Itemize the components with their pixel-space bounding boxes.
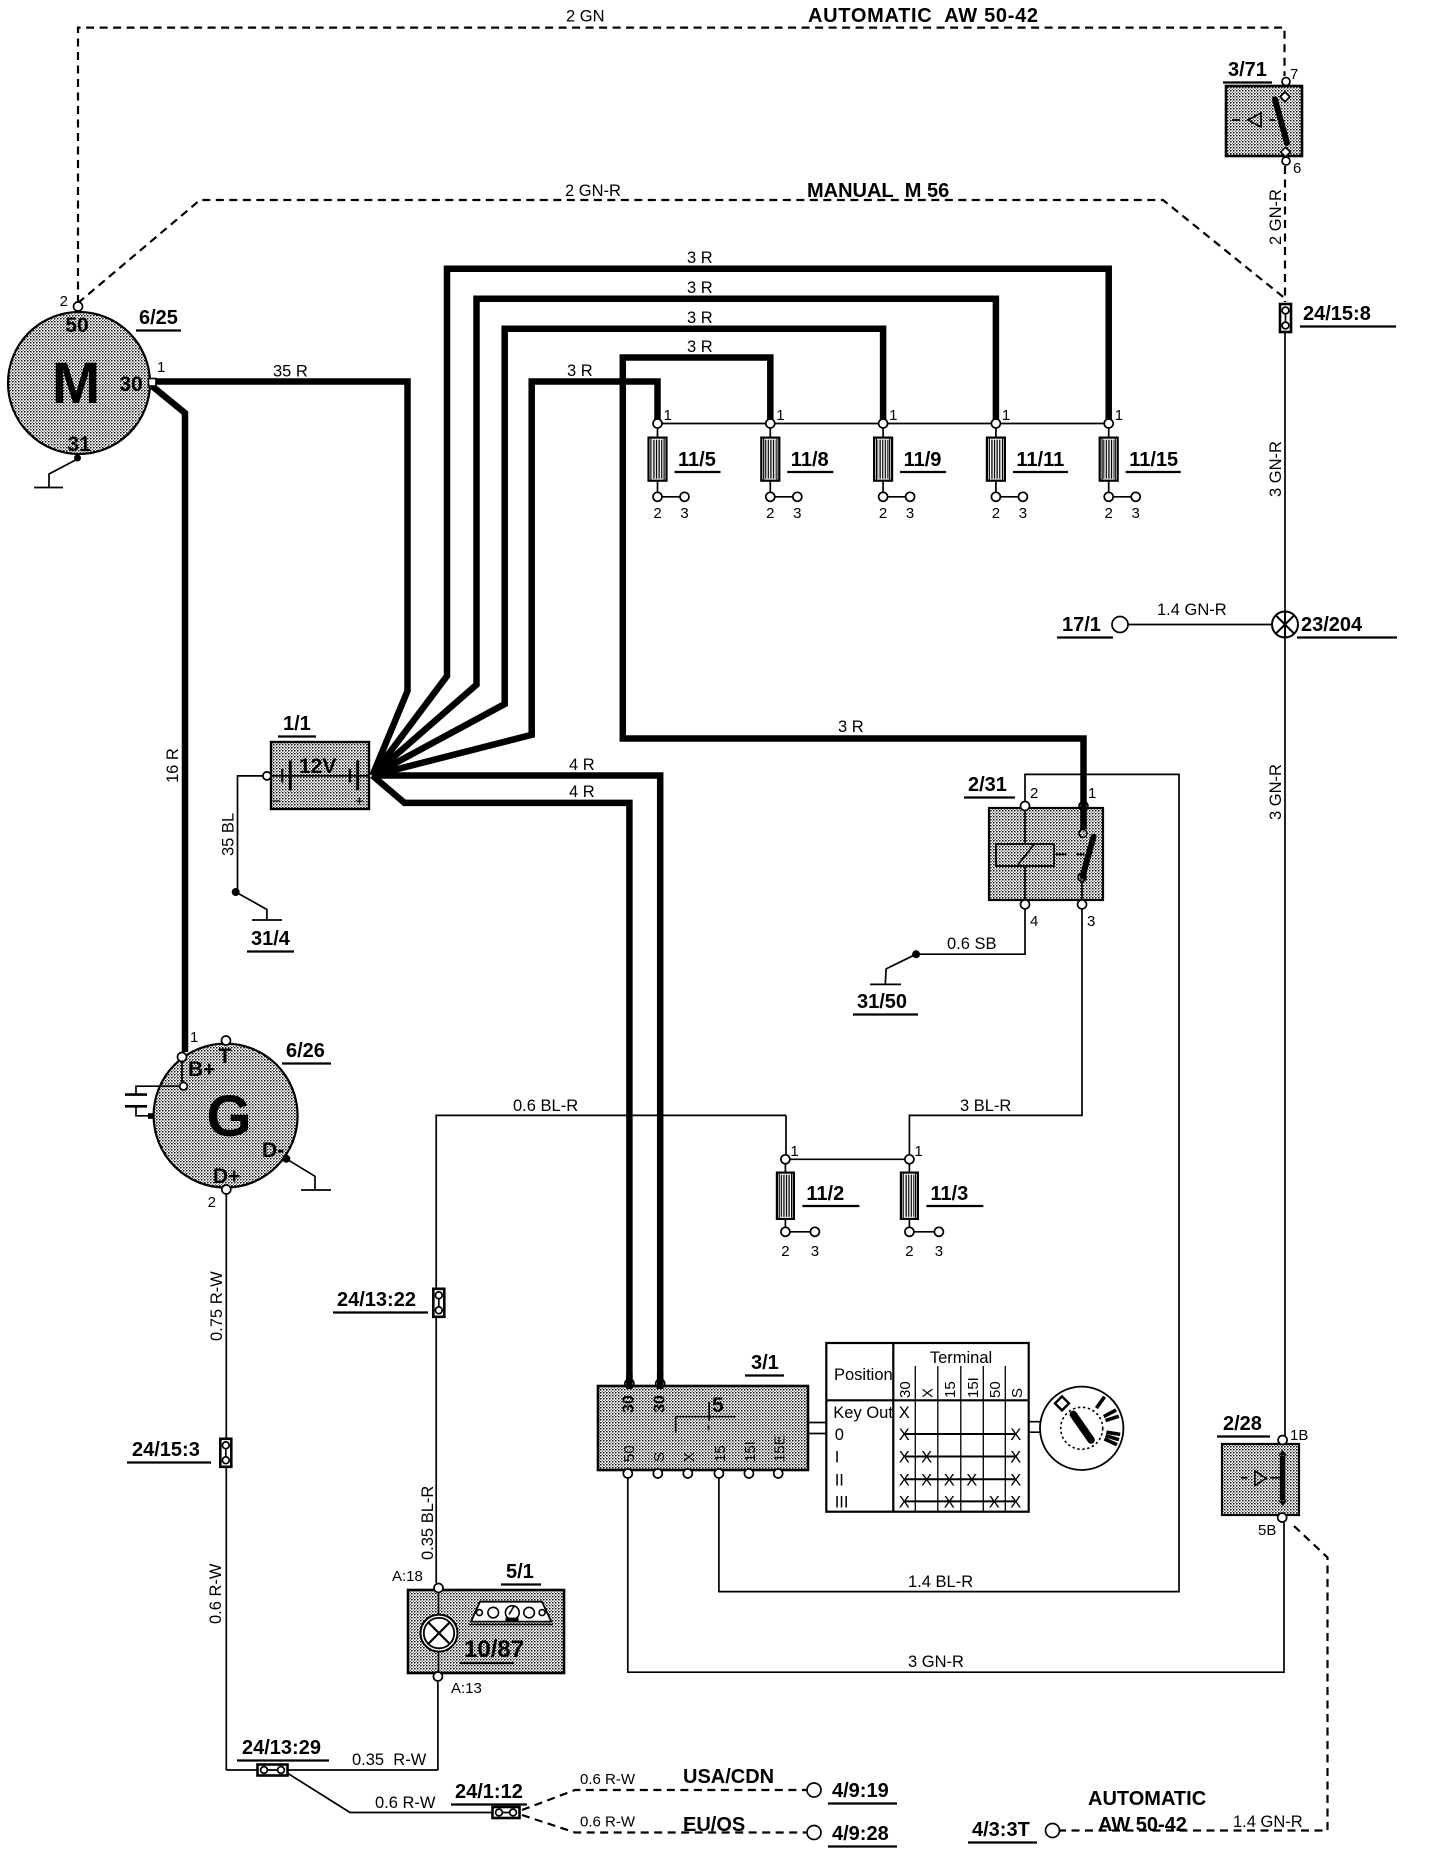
svg-text:15E: 15E xyxy=(772,1435,789,1462)
svg-text:3: 3 xyxy=(811,1243,819,1260)
svg-text:1B: 1B xyxy=(1290,1427,1308,1444)
svg-text:3/1: 3/1 xyxy=(751,1352,779,1374)
svg-text:X: X xyxy=(1010,1449,1021,1467)
svg-text:0.6 R-W: 0.6 R-W xyxy=(375,1794,436,1812)
svg-text:1: 1 xyxy=(157,359,165,376)
svg-text:1: 1 xyxy=(889,407,897,424)
svg-text:11/2: 11/2 xyxy=(806,1183,844,1205)
svg-text:III: III xyxy=(835,1494,849,1512)
svg-text:S: S xyxy=(1009,1388,1026,1398)
svg-text:50: 50 xyxy=(65,314,88,337)
svg-text:2: 2 xyxy=(992,505,1000,522)
svg-text:A:13: A:13 xyxy=(451,1680,482,1697)
svg-text:2 GN-R: 2 GN-R xyxy=(1267,189,1285,245)
svg-text:X: X xyxy=(899,1471,910,1489)
svg-text:12V: 12V xyxy=(299,755,336,778)
svg-text:2/31: 2/31 xyxy=(968,774,1007,796)
svg-text:X: X xyxy=(966,1471,977,1489)
svg-text:X: X xyxy=(920,1388,937,1398)
svg-text:Terminal: Terminal xyxy=(930,1349,992,1367)
svg-text:X: X xyxy=(899,1404,910,1422)
svg-text:X: X xyxy=(1010,1471,1021,1489)
svg-text:X: X xyxy=(899,1449,910,1467)
svg-text:X: X xyxy=(899,1493,910,1511)
svg-text:6/26: 6/26 xyxy=(286,1040,325,1062)
svg-text:0.6 R-W: 0.6 R-W xyxy=(580,1814,636,1831)
svg-text:1: 1 xyxy=(776,407,784,424)
svg-text:X: X xyxy=(921,1449,932,1467)
svg-text:S: S xyxy=(651,1452,668,1462)
svg-text:6/25: 6/25 xyxy=(139,307,178,329)
svg-text:1/1: 1/1 xyxy=(283,713,311,735)
svg-text:24/1:12: 24/1:12 xyxy=(455,1781,523,1803)
svg-text:4 R: 4 R xyxy=(569,783,595,801)
svg-text:2: 2 xyxy=(781,1243,789,1260)
svg-text:24/15:3: 24/15:3 xyxy=(132,1439,200,1461)
svg-text:2/28: 2/28 xyxy=(1223,1413,1262,1435)
svg-text:35 R: 35 R xyxy=(273,363,308,381)
svg-text:0.6 R-W: 0.6 R-W xyxy=(207,1563,225,1624)
svg-text:2: 2 xyxy=(879,505,887,522)
svg-text:−: − xyxy=(272,793,281,810)
svg-text:5B: 5B xyxy=(1258,1522,1276,1539)
svg-text:AW 50-42: AW 50-42 xyxy=(1098,1814,1187,1836)
svg-text:4/9:28: 4/9:28 xyxy=(832,1823,889,1845)
svg-text:2: 2 xyxy=(208,1194,216,1211)
svg-text:3: 3 xyxy=(793,505,801,522)
svg-text:3: 3 xyxy=(1087,913,1095,930)
svg-text:Position: Position xyxy=(834,1366,893,1384)
svg-text:11/8: 11/8 xyxy=(791,449,829,471)
svg-text:1.4 BL-R: 1.4 BL-R xyxy=(908,1573,973,1591)
svg-text:30: 30 xyxy=(621,1395,638,1413)
svg-text:2 GN-R: 2 GN-R xyxy=(565,182,621,200)
svg-text:D+: D+ xyxy=(213,1165,240,1188)
svg-text:0: 0 xyxy=(835,1426,844,1444)
svg-text:4/9:19: 4/9:19 xyxy=(832,1780,889,1802)
svg-text:2: 2 xyxy=(60,293,68,310)
svg-text:X: X xyxy=(1010,1426,1021,1444)
svg-text:1: 1 xyxy=(1002,407,1010,424)
svg-text:30: 30 xyxy=(652,1395,669,1413)
svg-text:6: 6 xyxy=(1293,160,1301,177)
svg-text:Key Out: Key Out xyxy=(833,1404,893,1422)
svg-text:X: X xyxy=(1010,1493,1021,1511)
svg-text:7: 7 xyxy=(1290,66,1298,83)
svg-text:2: 2 xyxy=(1105,505,1113,522)
svg-text:X: X xyxy=(681,1452,698,1462)
svg-text:35 BL: 35 BL xyxy=(220,813,238,856)
svg-text:3 GN-R: 3 GN-R xyxy=(1267,441,1285,497)
svg-text:17/1: 17/1 xyxy=(1062,614,1101,636)
svg-text:2: 2 xyxy=(905,1243,913,1260)
svg-text:G: G xyxy=(206,1084,251,1149)
svg-text:0.75 R-W: 0.75 R-W xyxy=(208,1271,226,1341)
svg-text:3 BL-R: 3 BL-R xyxy=(960,1097,1011,1115)
svg-text:3: 3 xyxy=(680,505,688,522)
svg-text:2: 2 xyxy=(653,505,661,522)
svg-text:50: 50 xyxy=(621,1445,638,1462)
svg-text:15I: 15I xyxy=(742,1441,759,1462)
svg-text:0.6 SB: 0.6 SB xyxy=(947,935,997,953)
svg-text:AUTOMATIC: AUTOMATIC xyxy=(1088,1788,1206,1810)
svg-text:30: 30 xyxy=(897,1381,914,1398)
svg-text:1.4 GN-R: 1.4 GN-R xyxy=(1233,1813,1303,1831)
svg-text:1: 1 xyxy=(1088,785,1096,802)
svg-text:4: 4 xyxy=(1030,913,1038,930)
svg-text:3 R: 3 R xyxy=(687,338,713,356)
svg-text:11/9: 11/9 xyxy=(904,449,942,471)
svg-text:11/3: 11/3 xyxy=(930,1183,968,1205)
svg-text:4 R: 4 R xyxy=(569,756,595,774)
svg-text:+: + xyxy=(355,793,364,810)
svg-text:4/3:3T: 4/3:3T xyxy=(972,1819,1030,1841)
svg-text:3 R: 3 R xyxy=(687,279,713,297)
svg-text:3: 3 xyxy=(1132,505,1140,522)
svg-text:15: 15 xyxy=(942,1381,959,1398)
svg-text:1: 1 xyxy=(914,1143,922,1160)
svg-text:M: M xyxy=(52,351,100,416)
svg-text:23/204: 23/204 xyxy=(1301,614,1363,636)
svg-text:1: 1 xyxy=(664,407,672,424)
svg-text:0.35 BL-R: 0.35 BL-R xyxy=(419,1486,437,1560)
svg-text:31/4: 31/4 xyxy=(251,928,291,950)
svg-text:3 R: 3 R xyxy=(687,309,713,327)
svg-text:EU/OS: EU/OS xyxy=(683,1814,745,1836)
svg-text:30: 30 xyxy=(119,373,142,396)
svg-text:3: 3 xyxy=(935,1243,943,1260)
svg-text:31: 31 xyxy=(67,433,91,456)
svg-text:24/13:22: 24/13:22 xyxy=(337,1289,416,1311)
svg-text:50: 50 xyxy=(987,1381,1004,1398)
svg-text:24/13:29: 24/13:29 xyxy=(242,1737,321,1759)
svg-text:AUTOMATIC AW 50-42: AUTOMATIC AW 50-42 xyxy=(808,5,1039,27)
svg-text:10/87: 10/87 xyxy=(464,1636,524,1663)
svg-text:X: X xyxy=(944,1471,955,1489)
svg-text:1: 1 xyxy=(790,1143,798,1160)
svg-text:1.4 GN-R: 1.4 GN-R xyxy=(1157,601,1227,619)
svg-text:11/11: 11/11 xyxy=(1016,449,1064,471)
svg-text:X: X xyxy=(921,1471,932,1489)
svg-text:11/5: 11/5 xyxy=(678,449,716,471)
svg-text:5/1: 5/1 xyxy=(506,1561,534,1583)
svg-text:0.6 BL-R: 0.6 BL-R xyxy=(513,1097,578,1115)
svg-text:3 GN-R: 3 GN-R xyxy=(908,1653,964,1671)
svg-text:3: 3 xyxy=(906,505,914,522)
svg-text:15: 15 xyxy=(712,1445,729,1462)
svg-text:3 R: 3 R xyxy=(687,249,713,267)
svg-text:3 GN-R: 3 GN-R xyxy=(1267,764,1285,820)
svg-text:II: II xyxy=(835,1472,844,1490)
svg-text:16 R: 16 R xyxy=(164,748,182,783)
svg-text:USA/CDN: USA/CDN xyxy=(683,1766,774,1788)
svg-text:B+: B+ xyxy=(188,1058,215,1081)
svg-text:3 R: 3 R xyxy=(838,718,864,736)
svg-text:X: X xyxy=(944,1493,955,1511)
svg-text:5: 5 xyxy=(712,1394,724,1417)
svg-text:T: T xyxy=(219,1045,232,1068)
svg-text:3/71: 3/71 xyxy=(1228,59,1267,81)
svg-text:0.35 R-W: 0.35 R-W xyxy=(352,1751,427,1769)
svg-text:X: X xyxy=(989,1493,1000,1511)
svg-text:MANUAL M 56: MANUAL M 56 xyxy=(807,180,949,202)
svg-text:1: 1 xyxy=(190,1029,198,1046)
svg-text:31/50: 31/50 xyxy=(857,991,907,1013)
svg-text:X: X xyxy=(899,1426,910,1444)
svg-text:2: 2 xyxy=(766,505,774,522)
svg-text:2: 2 xyxy=(1030,785,1038,802)
svg-text:15I: 15I xyxy=(965,1377,982,1398)
svg-text:0.6 R-W: 0.6 R-W xyxy=(580,1771,636,1788)
svg-text:I: I xyxy=(835,1449,840,1467)
svg-text:A:18: A:18 xyxy=(392,1568,423,1585)
svg-text:3: 3 xyxy=(1019,505,1027,522)
svg-text:1: 1 xyxy=(1115,407,1123,424)
svg-text:11/15: 11/15 xyxy=(1129,449,1178,471)
svg-text:D-: D- xyxy=(262,1139,284,1162)
svg-text:3 R: 3 R xyxy=(567,362,593,380)
svg-text:2 GN: 2 GN xyxy=(566,8,605,26)
svg-text:24/15:8: 24/15:8 xyxy=(1303,303,1371,325)
